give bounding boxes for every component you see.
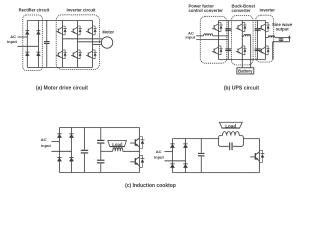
svg-text:AC: AC: [156, 149, 162, 154]
svg-text:converter: converter: [231, 8, 250, 13]
svg-text:input: input: [41, 143, 51, 148]
svg-text:output: output: [276, 27, 290, 32]
svg-text:Inverter: Inverter: [260, 8, 276, 13]
svg-text:(b) UPS circuit: (b) UPS circuit: [224, 85, 260, 91]
svg-text:input: input: [185, 35, 195, 40]
svg-text:(a) Motor drive circuit: (a) Motor drive circuit: [36, 85, 88, 91]
svg-text:input: input: [154, 155, 164, 160]
svg-text:Battery: Battery: [238, 68, 253, 73]
svg-text:Load: Load: [225, 123, 236, 128]
svg-text:(c) Induction cooktop: (c) Induction cooktop: [125, 183, 176, 189]
svg-text:Inverter circuit: Inverter circuit: [66, 7, 96, 12]
svg-text:Load: Load: [112, 142, 123, 147]
svg-text:control converter: control converter: [188, 8, 223, 13]
svg-text:Rectifier circuit: Rectifier circuit: [19, 7, 50, 12]
svg-text:input: input: [7, 39, 17, 44]
svg-text:AC: AC: [41, 137, 47, 142]
svg-text:Motor: Motor: [102, 30, 114, 35]
